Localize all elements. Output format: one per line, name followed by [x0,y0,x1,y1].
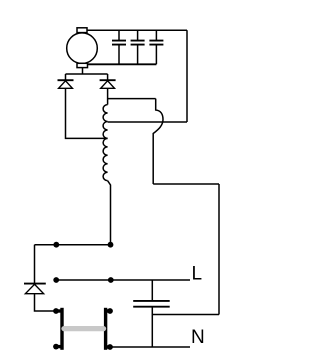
wire coil bottom lead [108,181,111,245]
link bar gray [64,326,104,331]
diode D1 [58,80,74,88]
wire coil middle tap [108,121,187,123]
wire junction row 1 [35,244,111,246]
wire riser from top bus [186,30,188,122]
connector right bottom nub [106,345,111,348]
wire D3 anode to connector [35,294,54,311]
wire L row [56,279,190,281]
wire right riser [218,184,220,315]
diode D3 [24,284,46,294]
capacitor C3 [149,30,163,64]
motor M1 [67,28,98,68]
capacitor C2 [131,30,145,64]
wire crossover hop [153,99,163,184]
capacitor C1 [112,30,126,64]
capacitor C4 [133,280,170,347]
node L row left [53,277,59,283]
connector left bar [60,308,63,350]
wire to right riser [153,183,219,185]
connector right top nub [106,309,111,312]
wire coil top tap to crossover [108,98,156,100]
wire row1 to D3 [34,245,36,284]
wire motor brush lead [66,68,108,81]
pin dot left top [53,308,59,314]
wire N [110,346,190,348]
wire top bus [87,29,187,31]
connector right bar [104,308,107,350]
connector left bottom nub [56,345,62,348]
diode D2 [100,80,116,88]
pin dot right top [107,308,113,314]
inductor L1 [103,105,108,181]
pin dot left bottom [53,344,59,350]
wire D1 anode to coil left tap [66,88,108,138]
node row1 right [108,242,114,248]
wire riser to C4 [152,314,219,316]
svg-text:L: L [192,264,203,285]
wire capacitor bottom bus [88,63,157,65]
node row1 left [53,242,59,248]
node L row right [108,277,114,283]
svg-text:N: N [191,327,205,348]
wire D2 anode [107,88,109,104]
connector left top nub [56,309,62,312]
pin dot right bottom [107,344,113,350]
